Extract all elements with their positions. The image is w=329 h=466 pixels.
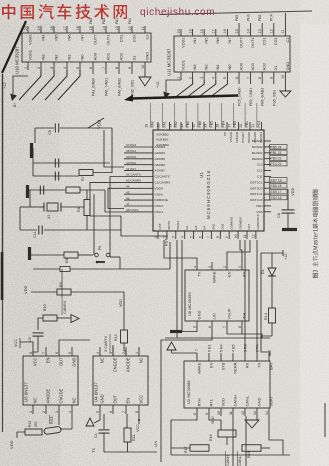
wire osc top loop <box>35 128 112 173</box>
resistor R18 <box>242 445 270 458</box>
capacitor C10 <box>40 186 43 195</box>
IC U2 MC33388 body <box>184 361 270 408</box>
wire CANL <box>238 416 247 466</box>
watermark site url <box>140 7 215 18</box>
wire row45 to reset RC <box>93 194 95 255</box>
junction bar under P6 <box>96 261 105 263</box>
node +12 supply <box>261 250 288 268</box>
capacitor C8 <box>277 210 295 228</box>
resistor R16 <box>209 416 236 445</box>
header net label boxes right of MCU <box>270 145 288 201</box>
resistor R7 <box>79 170 112 182</box>
ground bar osc upper <box>30 143 33 158</box>
wire cantx run <box>110 177 124 357</box>
wire VSUP INH to supply <box>227 329 262 338</box>
connector arrow up left of U2 <box>167 342 197 353</box>
wire osc mid a <box>33 162 110 164</box>
U2 bottom pins <box>193 395 274 416</box>
wire u3 vcc up <box>20 340 90 347</box>
scan border top-left diagonal <box>2 21 26 73</box>
wire CANH <box>226 416 234 466</box>
IC U1 MCU body <box>153 130 264 231</box>
scan border left edge <box>1 74 4 432</box>
figure caption <box>313 190 319 278</box>
wire mid row <box>31 254 93 256</box>
wire VDD to R13 <box>123 292 125 330</box>
IC U11 MC33287 body <box>174 36 290 72</box>
test point P6 <box>95 246 110 264</box>
node VDD right of MCU <box>288 187 295 210</box>
wire RX to U8 <box>240 240 242 262</box>
ground bar mid <box>28 247 31 260</box>
resistor R11 <box>124 414 136 452</box>
IC U2 reference label <box>186 380 191 404</box>
wire crystal left leg <box>20 190 30 230</box>
IC U8 MC33399 body <box>185 270 249 321</box>
node VDD at U2 pin10 <box>211 416 215 424</box>
resistor R17 <box>171 445 209 453</box>
ground bar below C8 <box>282 228 297 231</box>
U11 top pins 20-11 with labels <box>177 13 290 48</box>
ground at U10 pin 10 <box>139 70 151 86</box>
resistor R9 <box>57 282 124 295</box>
IC U11 reference label <box>167 48 172 76</box>
resistor R6 <box>77 190 90 230</box>
resistor R13 <box>114 330 128 356</box>
wire pin44 loop to OSC1 <box>108 188 124 208</box>
wire U3 pin3 down <box>58 414 60 425</box>
harness bus heavy wire <box>124 95 238 102</box>
resistor R15 390 <box>25 421 42 435</box>
capacitor C5 <box>48 124 60 136</box>
resistor R8 <box>64 252 78 263</box>
wire K lines down to U2 area <box>177 240 182 338</box>
resistor R14 <box>262 308 276 338</box>
U10 ADC output nets <box>92 70 135 96</box>
IC U8 reference label <box>187 292 192 316</box>
capacitor C9 <box>28 333 44 356</box>
capacitor C11 <box>20 226 87 239</box>
net label RX3 <box>50 415 55 424</box>
IC U3 6N137 body <box>23 356 78 405</box>
connector arrow right <box>71 315 79 323</box>
wire +12 to U2 VBAT pin1 <box>261 253 270 356</box>
wire TX to U8 <box>164 240 197 262</box>
IC U1 reference label <box>199 170 211 219</box>
node VCC u3 <box>14 338 20 348</box>
resistor R19 pill <box>44 414 72 435</box>
wire R10 to VCC <box>38 318 43 330</box>
U2 top pins <box>196 353 273 374</box>
capacitor C4 <box>94 414 110 452</box>
U10 bottom pins 1-10 with labels <box>24 50 150 70</box>
wires MCU to U2 pins <box>245 240 257 353</box>
node VDD rail left of MCU <box>97 120 125 167</box>
connector arrow at U4 gnd <box>86 414 100 426</box>
wire U2 pin8 to bottom rail <box>171 416 197 455</box>
wire LIN net <box>153 329 212 462</box>
wire EN to U8 <box>227 240 250 262</box>
U11 input wires to harness bus <box>176 80 228 97</box>
node VDD can branch <box>23 285 57 294</box>
MCU top inside labels <box>156 131 263 147</box>
node +12 at U11 pin1 <box>156 80 181 92</box>
MCU left pins with net names <box>124 143 170 214</box>
net labels above U2 pins <box>195 343 272 352</box>
wire U2 pin14 branch <box>269 416 283 455</box>
wire CANRX loop at MCU corner <box>90 182 168 236</box>
MCU right pins with labels <box>250 139 271 214</box>
IC U10 MC33287 body <box>22 33 151 62</box>
U11 ADC output nets <box>238 80 277 106</box>
wire osc to MCU <box>87 229 121 231</box>
U3 bottom pins <box>29 388 77 414</box>
IC U4 reference label <box>94 382 99 402</box>
wire U2 bottom rail <box>171 454 290 456</box>
resistor R5 <box>66 187 80 193</box>
IC U10 reference label <box>15 46 20 74</box>
U4 top pins <box>96 347 144 372</box>
wire u4 bottom rail <box>104 451 157 453</box>
crystal X1 <box>30 203 84 220</box>
diode D1 <box>261 268 276 308</box>
ground bar at U8 pin5 <box>170 329 197 332</box>
U3 top pins <box>29 347 77 367</box>
scan border right edge fragment <box>324 403 326 437</box>
U10 top pins 20-11 with labels <box>24 18 150 45</box>
watermark chinese site name <box>2 4 127 19</box>
wire canrx run <box>61 269 63 298</box>
U10 input wires fanning to harness <box>19 70 80 100</box>
MCU bottom pins and labels <box>154 213 260 239</box>
net label TX <box>91 448 96 453</box>
net label CANTX <box>104 334 110 353</box>
capacitor C7 <box>55 172 58 181</box>
resistor R10 <box>43 304 71 321</box>
capacitor C6 <box>55 159 58 168</box>
node +12 at U10 pin1 <box>3 76 28 94</box>
wire bus above U2 <box>165 337 270 339</box>
MCU top pins <box>158 122 262 130</box>
node VCC u4 <box>136 414 140 432</box>
wire osc diagonal joint <box>88 118 104 128</box>
battery feed arrow at U10 <box>10 94 17 108</box>
wire osc mid b <box>33 148 79 176</box>
U4 bottom pins <box>96 394 144 414</box>
U8 bottom pins <box>193 308 247 329</box>
scan border top edge <box>160 11 312 15</box>
node RST label <box>165 238 169 246</box>
ground at U11 pin 10 <box>280 80 291 97</box>
node VDD u3 <box>9 432 25 449</box>
IC U4 6N137 body <box>93 356 148 405</box>
U8 top pins <box>193 262 247 283</box>
battery feed arrow at U11 <box>163 92 170 100</box>
wire RST net vertical <box>110 242 170 269</box>
ground bar osc lower <box>26 185 29 198</box>
IC U3 reference label <box>24 382 29 402</box>
ground at U2 pin13 <box>245 416 259 428</box>
zener D2 <box>33 267 170 272</box>
node VDD at bend <box>119 299 123 307</box>
MCU port net labels row <box>145 103 261 128</box>
U11 bottom pins 1-10 with labels <box>177 60 290 80</box>
net label CANRX <box>62 298 67 315</box>
wire osc group2 <box>29 190 124 212</box>
